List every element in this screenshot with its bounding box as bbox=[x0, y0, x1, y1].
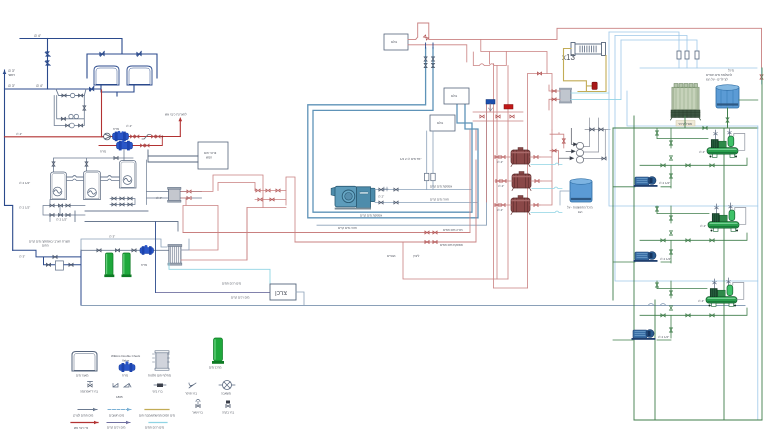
check chiller mid bbox=[384, 187, 388, 191]
makeup valve glyph2 bbox=[685, 51, 689, 59]
chiller CH3 green bbox=[706, 278, 737, 307]
svg-text:מגורים: מגורים bbox=[387, 254, 395, 258]
valve right edge diag bbox=[83, 106, 86, 110]
svg-text:ברז ביטי: ברז ביטי bbox=[152, 390, 163, 394]
svg-text:להשלמת מים חסרים: להשלמת מים חסרים bbox=[706, 73, 732, 77]
svg-text:לצ'ילרים - על הגג: לצ'ילרים - על הגג bbox=[706, 78, 728, 82]
valve cluster upper bbox=[480, 115, 484, 118]
tank T1 water storage bbox=[94, 66, 119, 85]
svg-text:∅ 4": ∅ 4" bbox=[16, 132, 22, 136]
svg-text:הגג: הגג bbox=[578, 210, 583, 214]
valve green rows bbox=[661, 164, 665, 167]
valve meter run1 bbox=[62, 94, 66, 97]
svg-text:לתערכת כיבוי אש: לתערכת כיבוי אש bbox=[165, 113, 187, 117]
wire connect consumer down bbox=[296, 292, 304, 306]
valve bottom row bbox=[66, 124, 70, 127]
wire boiler top headers bbox=[54, 150, 134, 172]
svg-text:∅ 2 1/2": ∅ 2 1/2" bbox=[19, 181, 30, 185]
svg-text:מים חשובים: מים חשובים bbox=[109, 414, 124, 418]
filter feed bbox=[55, 261, 63, 270]
valve header right bbox=[602, 157, 606, 160]
valve soft3 bbox=[132, 249, 136, 252]
box expansion B bbox=[444, 88, 469, 104]
svg-text:∅ 4": ∅ 4" bbox=[34, 34, 42, 38]
valve feed row1 bbox=[53, 255, 57, 258]
valve G2 right bbox=[535, 180, 539, 183]
header pill 3 bbox=[577, 157, 584, 164]
valve header b bbox=[599, 128, 603, 131]
svg-text:משאבה: משאבה bbox=[221, 392, 231, 396]
valve meter run2 bbox=[79, 94, 83, 97]
valve hot main2 bbox=[425, 241, 429, 244]
valve solar row1 bbox=[256, 189, 260, 192]
wire cyan drops left bbox=[609, 32, 758, 206]
wire chiller supply line bbox=[375, 189, 472, 191]
legend DCV symbol bbox=[119, 361, 135, 372]
wire hot supply return mains bbox=[183, 130, 476, 242]
wire module3 piping bbox=[640, 281, 747, 338]
wire bridges on long line bbox=[648, 304, 666, 306]
svg-text:מיכל: מיכל bbox=[728, 69, 734, 73]
svg-text:תוצרת הערבי באספקה מים קרים: תוצרת הערבי באספקה מים קרים bbox=[29, 240, 70, 244]
svg-text:מים חמים מהשמש/מבח חום: מים חמים מהשמש/מבח חום bbox=[139, 414, 175, 418]
svg-text:מים רכים קרים: מים רכים קרים bbox=[107, 426, 125, 430]
wire pink left branch bbox=[528, 74, 548, 289]
heat-exchanger HX2 bbox=[168, 244, 182, 265]
valve tank1 inlet bbox=[100, 51, 105, 56]
wire softener header bbox=[81, 249, 169, 251]
svg-text:צרכן: צרכן bbox=[275, 290, 287, 297]
radiator x13 fan coil bbox=[571, 43, 606, 56]
valve hot main1 bbox=[425, 231, 429, 234]
valve top loop bbox=[423, 35, 428, 40]
wire cold return main bbox=[317, 104, 487, 225]
wire red riser from tanks bbox=[101, 90, 103, 137]
tank makeup blue bbox=[716, 85, 739, 108]
svg-text:Valve: Valve bbox=[122, 359, 130, 363]
box consumer bbox=[270, 284, 296, 300]
wire header top line bbox=[585, 118, 610, 154]
legend check 1865 bbox=[113, 384, 118, 388]
domain diagram content bbox=[3, 34, 187, 250]
svg-text:∅ 3": ∅ 3" bbox=[109, 235, 115, 239]
legend butterfly bbox=[189, 383, 196, 388]
valve row lower1 bbox=[50, 204, 54, 207]
wire DCV lower branch bbox=[99, 137, 162, 146]
svg-text:אספקת מים קרים: אספקת מים קרים bbox=[360, 214, 382, 218]
wire green main left bbox=[613, 116, 685, 420]
svg-text:ברז פרפר: ברז פרפר bbox=[185, 392, 197, 396]
junction dot bbox=[161, 136, 163, 138]
makeup valve glyph1 bbox=[677, 51, 681, 59]
valve G1 right bbox=[534, 156, 538, 159]
valve row lower2 bbox=[50, 214, 54, 217]
wire distribution line under tanks bbox=[5, 88, 101, 90]
valve hx right top bbox=[187, 190, 191, 193]
wire CH2 bypass bbox=[735, 208, 746, 225]
svg-text:מז"ח: מז"ח bbox=[122, 374, 128, 378]
wire G3 connects bbox=[494, 204, 540, 206]
valve main top bbox=[89, 86, 94, 91]
wire lines into consumers box bbox=[148, 150, 198, 162]
boiler B1 bbox=[51, 172, 67, 200]
pump CP3 blue bbox=[632, 330, 656, 340]
valve G3 left bbox=[501, 204, 505, 207]
svg-text:∅ 4": ∅ 4" bbox=[498, 184, 504, 188]
generator G3 maroon bbox=[511, 196, 530, 215]
valve red top right bbox=[760, 75, 763, 79]
tank expansion blue bbox=[570, 179, 592, 202]
wire green right verticals bbox=[724, 68, 762, 420]
wire fire line up arrow bbox=[179, 120, 181, 137]
valve G3 right bbox=[534, 204, 538, 207]
wire CH3 bypass bbox=[733, 283, 744, 300]
valve boiler riser2 bbox=[85, 162, 88, 166]
component red strainer bbox=[504, 105, 513, 110]
legend line soft hot bbox=[149, 422, 167, 424]
svg-text:∅ 4": ∅ 4" bbox=[156, 196, 162, 200]
svg-text:Wilkins Double Check: Wilkins Double Check bbox=[111, 354, 141, 358]
wire gen gray returns bbox=[531, 163, 562, 213]
generator G1 maroon bbox=[511, 148, 530, 167]
svg-text:ברז בקרה: ברז בקרה bbox=[222, 411, 234, 415]
wire boiler valve cluster mid bbox=[110, 160, 147, 205]
water-softener green cylinder 2 bbox=[122, 253, 132, 277]
wire DCV upper branch bbox=[103, 136, 180, 138]
legend line fire bbox=[71, 422, 98, 424]
svg-text:∅ 4": ∅ 4" bbox=[497, 208, 503, 212]
box meter C bbox=[430, 115, 455, 131]
svg-text:חמש: חמש bbox=[206, 156, 212, 160]
svg-text:מים רכים קרים: מים רכים קרים bbox=[231, 296, 249, 300]
wire cyan second loop bbox=[615, 36, 758, 282]
svg-text:בולם: בולם bbox=[437, 121, 443, 125]
wire pink small web upper bbox=[473, 104, 523, 121]
boiler B3 bbox=[120, 161, 137, 189]
legend gate valve bbox=[196, 405, 200, 408]
wire city water left riser bbox=[5, 70, 13, 250]
svg-text:החום: החום bbox=[42, 244, 49, 248]
wire tank down green bbox=[727, 108, 729, 128]
header pill 1 bbox=[577, 143, 584, 150]
wire green top header bbox=[613, 108, 758, 128]
pump bottom row bbox=[70, 123, 75, 128]
wire G2 connects bbox=[495, 180, 541, 182]
svg-text:חזרה מים קרים: חזרה מים קרים bbox=[430, 198, 449, 202]
svg-text:אספקת מים חמים: אספקת מים חמים bbox=[440, 243, 463, 247]
pump fire booster bbox=[104, 133, 111, 140]
valve solar row2 bbox=[258, 198, 262, 201]
legend hx symbol bbox=[153, 351, 170, 370]
arrow into pill1 bbox=[571, 128, 577, 145]
pump CP2 blue bbox=[634, 252, 658, 262]
valve feed row2a bbox=[46, 263, 50, 266]
svg-text:מים רכים חמים: מים רכים חמים bbox=[222, 282, 241, 286]
wire pink drop and rect loop bbox=[481, 39, 552, 130]
valve hx right bottom bbox=[187, 197, 191, 200]
valve hx3 left top bbox=[552, 90, 556, 93]
generator G2 maroon bbox=[512, 172, 531, 191]
svg-text:∅ 4": ∅ 4" bbox=[497, 160, 503, 164]
legend bm control bbox=[157, 384, 163, 388]
wire pink web horizontals bbox=[403, 242, 528, 288]
wire cyan third bbox=[621, 40, 758, 126]
wire box A second line bbox=[408, 45, 467, 62]
legend valve diaphragm bbox=[88, 384, 92, 387]
wire boiler lower piping loops bbox=[43, 200, 85, 222]
svg-text:מד מים ∅ 2 1/2": מד מים ∅ 2 1/2" bbox=[400, 157, 421, 161]
svg-text:צרכני חום: צרכני חום bbox=[204, 151, 217, 155]
svg-text:∅ 3": ∅ 3" bbox=[8, 84, 16, 88]
wire chilled loop inner bbox=[313, 48, 472, 212]
svg-text:מאגר מים: מאגר מים bbox=[76, 374, 88, 378]
wire soft cold line slate bbox=[156, 291, 271, 293]
wire lblue right vertical bbox=[757, 126, 759, 420]
wire green bottom bbox=[634, 300, 762, 420]
valve on riser bbox=[45, 52, 50, 57]
meter glyph2 bbox=[431, 173, 435, 180]
svg-text:∅ 2 1/2": ∅ 2 1/2" bbox=[660, 257, 671, 261]
valve soft2 bbox=[115, 249, 119, 252]
label pipe sizes bbox=[8, 34, 44, 88]
wire chilled loop outer bbox=[308, 48, 478, 218]
svg-text:מים רכים חמים: מים רכים חמים bbox=[145, 426, 164, 430]
legend line drinking bbox=[108, 409, 131, 411]
legend softener symbol bbox=[212, 338, 224, 364]
wire bolam risers navy bbox=[426, 43, 433, 48]
wire tank side green bbox=[739, 99, 758, 101]
wire hx2 connections bbox=[181, 239, 189, 250]
wire pump rows bbox=[613, 187, 671, 340]
wire solar loop pink bbox=[181, 175, 263, 208]
valve hx3 left bottom bbox=[552, 98, 556, 101]
wire hx3 teal out bbox=[571, 99, 621, 101]
meter glyph1 bbox=[425, 173, 429, 180]
red accumulator small bbox=[592, 82, 597, 89]
backflow preventer DCV1 bbox=[113, 131, 129, 141]
wire module2 piping bbox=[640, 206, 747, 263]
wire generator right drops bbox=[540, 130, 552, 205]
arrow into pill2 bbox=[566, 150, 575, 153]
valve after DCV1 pair bbox=[130, 135, 134, 138]
valve chiller return2 bbox=[394, 201, 398, 204]
wire boiler cross connects with bridges bbox=[67, 176, 84, 178]
svg-text:1865: 1865 bbox=[116, 395, 123, 399]
valve G2 left bbox=[502, 180, 506, 183]
component blue strainer bbox=[486, 100, 495, 105]
svg-text:∅ 4": ∅ 4" bbox=[700, 224, 706, 228]
makeup valve glyph3 bbox=[695, 51, 699, 59]
wire left main turn bbox=[13, 250, 81, 305]
wire meter jog main bbox=[56, 89, 86, 96]
svg-text:∅ 4": ∅ 4" bbox=[36, 84, 44, 88]
valve pink feed2 bbox=[552, 149, 556, 152]
svg-text:∅ 2 1/2": ∅ 2 1/2" bbox=[19, 206, 30, 210]
svg-text:∅ 2 1/2": ∅ 2 1/2" bbox=[56, 218, 67, 222]
valve loop risers bbox=[424, 57, 427, 61]
wire cyan riser lines top bbox=[609, 32, 697, 68]
svg-text:מים חמים לצרכן: מים חמים לצרכן bbox=[73, 414, 93, 418]
valve on riser bbox=[45, 61, 50, 66]
valve row2 pair bbox=[140, 144, 144, 147]
wire red main feed bbox=[5, 136, 104, 138]
svg-text:ראשי: ראשי bbox=[8, 73, 15, 77]
svg-text:מז"ח: מז"ח bbox=[141, 263, 147, 267]
chiller machine heat pump bbox=[331, 186, 375, 209]
wire down from hx bbox=[155, 222, 157, 292]
header pill 2 bbox=[577, 150, 584, 157]
wire meter stubs bbox=[427, 131, 433, 190]
wire tank outlets bbox=[101, 85, 134, 92]
svg-text:מרכך מים: מרכך מים bbox=[209, 366, 221, 370]
svg-text:∅ 2 1/2": ∅ 2 1/2" bbox=[658, 335, 669, 339]
wire boiler bottom main to right bbox=[75, 211, 178, 231]
wire long distribution line bbox=[81, 305, 745, 307]
wire expansion connect bbox=[560, 191, 570, 205]
wire solar loop pink lower bbox=[181, 177, 295, 260]
backflow preventer small DCV3 bbox=[140, 245, 154, 255]
svg-text:מחליף חום פלטות: מחליף חום פלטות bbox=[148, 374, 171, 378]
boiler B2 bbox=[84, 171, 101, 200]
legend tank symbol bbox=[72, 352, 97, 372]
svg-text:אספקת מים קרים: אספקת מים קרים bbox=[430, 185, 452, 189]
legend control valve bbox=[226, 405, 230, 408]
svg-text:∅ 2 1/2": ∅ 2 1/2" bbox=[659, 181, 670, 185]
wire hx connections bbox=[147, 192, 202, 199]
wire chiller return line bbox=[375, 202, 478, 204]
valve header a bbox=[590, 128, 594, 131]
legend line soft cold bbox=[107, 422, 130, 424]
valve pink feed1 bbox=[562, 139, 565, 143]
svg-text:∅ 3": ∅ 3" bbox=[19, 255, 25, 259]
wire pink bridge line bbox=[473, 52, 506, 66]
wire gray d3 line bbox=[81, 239, 167, 250]
valve bottom row2 bbox=[79, 124, 83, 127]
heat-exchanger solar HX bbox=[168, 187, 182, 202]
chiller CH1 green bbox=[707, 129, 738, 158]
svg-text:מי כיבוי אש: מי כיבוי אש bbox=[74, 426, 88, 430]
svg-text:ברז שער: ברז שער bbox=[192, 411, 203, 415]
valve pink branch bbox=[537, 72, 541, 75]
svg-text:בולם: בולם bbox=[391, 40, 397, 44]
svg-text:בולם: בולם bbox=[451, 94, 457, 98]
box heat consumers bbox=[198, 142, 228, 169]
svg-text:מז"ח: מז"ח bbox=[113, 127, 119, 131]
legend pump circle bbox=[223, 381, 232, 390]
box expansion A bbox=[384, 34, 408, 50]
valve G1 left bbox=[501, 156, 505, 159]
wire tank header loop bbox=[87, 54, 157, 78]
valve pair right bbox=[151, 135, 155, 138]
wire hot top loop small bbox=[408, 23, 429, 39]
valve boiler riser1 bbox=[52, 162, 55, 166]
wire pink header feeds bbox=[550, 133, 564, 165]
arrow into pill3 bbox=[559, 157, 574, 160]
svg-text:∅ 4": ∅ 4" bbox=[698, 299, 704, 303]
gauge meters pair bbox=[69, 114, 73, 118]
wire meter manifold loop bbox=[54, 96, 84, 126]
label cooling tower bbox=[676, 121, 695, 127]
svg-text:מיכל התפשטות - על: מיכל התפשטות - על bbox=[567, 206, 593, 210]
wire hx3 pink connects bbox=[549, 85, 560, 110]
svg-text:מז"ח: מז"ח bbox=[100, 150, 106, 154]
svg-text:∅ 4": ∅ 4" bbox=[126, 124, 132, 128]
legend line solar bbox=[145, 409, 169, 411]
valve chiller return bbox=[379, 201, 383, 204]
wire pink hx2 return bbox=[181, 208, 247, 261]
svg-text:ליצרן: ליצרן bbox=[413, 254, 420, 258]
heat-exchanger HX3 bbox=[559, 88, 572, 104]
wire olive loop bbox=[564, 49, 607, 92]
wire G1 connects bbox=[494, 156, 540, 158]
valve chiller supply bbox=[379, 188, 383, 191]
wire header connects bbox=[584, 147, 606, 159]
valve green vertical bbox=[656, 131, 659, 135]
water-softener green cylinder 1 bbox=[104, 253, 114, 277]
tank T2 water storage bbox=[127, 66, 152, 85]
backflow preventer DCV2 bbox=[117, 140, 133, 150]
svg-text:ברז דיאפרגמה: ברז דיאפרגמה bbox=[80, 390, 98, 394]
valve tank2 inlet bbox=[137, 51, 142, 56]
wire city water top main bbox=[20, 39, 122, 55]
valve feed row2b bbox=[69, 263, 73, 266]
svg-text:∅ 2": ∅ 2" bbox=[378, 195, 384, 199]
pump CP1 blue bbox=[634, 177, 658, 187]
valve chiller supply2 bbox=[394, 188, 398, 191]
valve gauge left bbox=[61, 117, 65, 120]
wire CH1 bypass bbox=[734, 134, 745, 151]
svg-text:חזרה מים חמים: חזרה מים חמים bbox=[443, 228, 463, 232]
svg-text:חזרה מים קרים: חזרה מים קרים bbox=[338, 226, 357, 230]
legend line hot consumer bbox=[78, 409, 97, 411]
svg-text:∅ 4": ∅ 4" bbox=[699, 150, 705, 154]
wire branch riser with valves bbox=[47, 39, 49, 90]
wire hot supply top main bbox=[429, 28, 762, 68]
wire cyan header to tank bbox=[640, 68, 762, 84]
check zigzag bbox=[142, 135, 151, 140]
valve boiler3 top bbox=[114, 157, 118, 160]
wire module1 piping bbox=[640, 128, 747, 188]
wire pink web verticals bbox=[470, 64, 508, 288]
cooling-tower bbox=[671, 84, 701, 121]
pump water meter bbox=[70, 93, 74, 97]
wire soft hot line cyan bbox=[169, 263, 271, 285]
valve soft1 bbox=[97, 249, 101, 252]
chiller CH2 green bbox=[708, 203, 739, 232]
